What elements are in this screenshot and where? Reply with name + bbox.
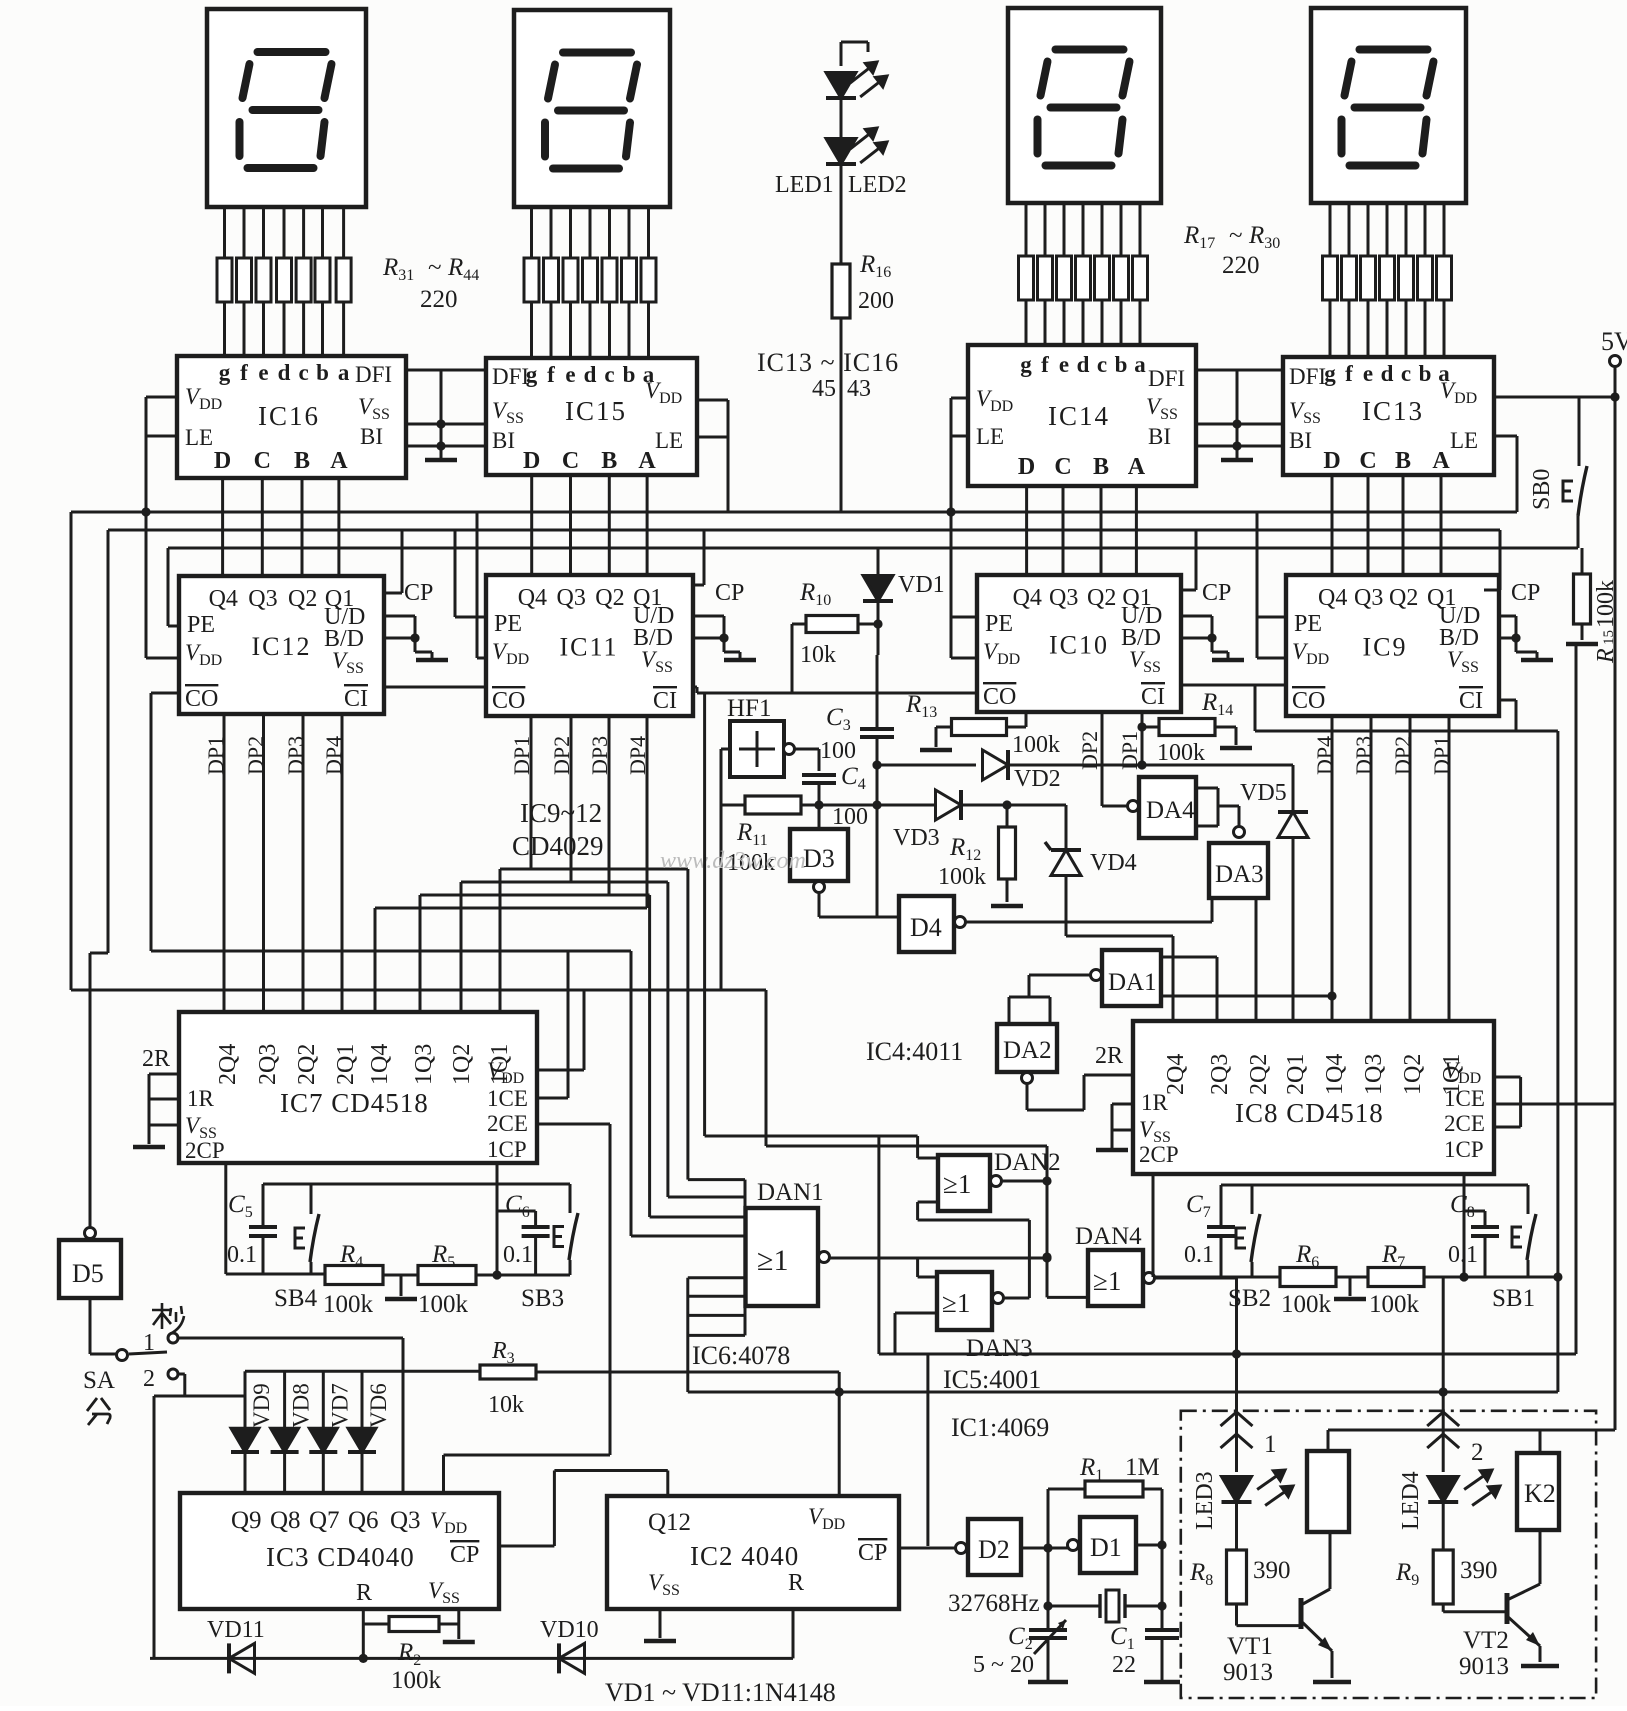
resistor R24-R30 #2 bbox=[1342, 256, 1357, 300]
resistor R24-R30 #3 bbox=[1361, 256, 1376, 300]
wire oscillator left column bbox=[1047, 1489, 1050, 1630]
svg-text:DAN3: DAN3 bbox=[966, 1335, 1033, 1362]
resistor R31-R37 #6 bbox=[315, 258, 330, 302]
wire IC2 CP to D2 bbox=[899, 1547, 956, 1550]
diode VD3 bbox=[936, 790, 962, 820]
svg-text:1Q3: 1Q3 bbox=[411, 1044, 437, 1085]
wire IC11 CP to bus B bbox=[693, 584, 704, 587]
svg-text:390: 390 bbox=[1253, 1557, 1291, 1584]
svg-text:CI: CI bbox=[1459, 688, 1483, 714]
wire to DAN3 input1 bbox=[1042, 1253, 1051, 1262]
svg-text:IC16: IC16 bbox=[258, 401, 320, 431]
svg-text:VD1 ~ VD11:1N4148: VD1 ~ VD11:1N4148 bbox=[605, 1678, 836, 1706]
svg-text:DP4: DP4 bbox=[321, 736, 346, 775]
svg-text:b: b bbox=[1115, 352, 1128, 377]
label seconds (Chinese) bbox=[152, 1303, 184, 1334]
crystal oscillator HF1 bbox=[730, 721, 784, 777]
svg-text:VD3: VD3 bbox=[893, 825, 940, 851]
svg-text:1: 1 bbox=[1264, 1431, 1277, 1458]
IC15 display latch/decoder bbox=[486, 358, 697, 475]
svg-text:DAN4: DAN4 bbox=[1075, 1223, 1142, 1250]
svg-text:100: 100 bbox=[820, 738, 856, 764]
svg-text:VD7: VD7 bbox=[327, 1383, 352, 1428]
wire display pin R17-R234 bbox=[1082, 203, 1085, 256]
svg-text:100k: 100k bbox=[1012, 732, 1060, 758]
resistor R38-R44 #6 bbox=[622, 258, 637, 302]
svg-text:IC9~12: IC9~12 bbox=[520, 798, 602, 828]
diode VD8 bbox=[283, 1371, 286, 1427]
wire IC7 1CE to y951 rail bbox=[537, 1097, 568, 1100]
NOR gate DAN2 bbox=[938, 1155, 990, 1211]
resistor R6 100k bbox=[1280, 1268, 1336, 1287]
wire resistor R17-R234 to driver IC bbox=[1082, 300, 1085, 345]
crystal bbox=[1048, 1605, 1100, 1608]
ground bbox=[724, 658, 756, 663]
wire display pin R24-R301 bbox=[1329, 203, 1332, 256]
diode VD9 bbox=[244, 1371, 247, 1427]
wire HF1 output bubble bbox=[784, 744, 795, 755]
svg-text:R: R bbox=[788, 1570, 804, 1596]
svg-text:CO: CO bbox=[185, 686, 218, 712]
svg-text:A: A bbox=[330, 448, 348, 474]
svg-text:1Q4: 1Q4 bbox=[1322, 1054, 1348, 1095]
svg-text:Q3: Q3 bbox=[1049, 585, 1078, 611]
wire HF1 left stub bbox=[721, 748, 730, 751]
wire R7-C8 node down to plug rail bbox=[1442, 1277, 1445, 1393]
svg-text:D: D bbox=[214, 448, 231, 474]
diode VD5 bbox=[1292, 765, 1295, 812]
svg-text:DP2: DP2 bbox=[243, 736, 268, 775]
wire IC7 2CP down bbox=[224, 1163, 227, 1274]
svg-text:PE: PE bbox=[1294, 611, 1322, 637]
wire ground drop bbox=[440, 370, 443, 460]
wire DAN1 output to latch node bbox=[829, 1257, 1047, 1260]
svg-text:Q3: Q3 bbox=[390, 1507, 421, 1534]
svg-text:LED2: LED2 bbox=[848, 172, 907, 198]
svg-text:IC2 4040: IC2 4040 bbox=[690, 1541, 799, 1571]
svg-text:IC7 CD4518: IC7 CD4518 bbox=[280, 1088, 429, 1118]
wire BI tie bbox=[1196, 445, 1283, 448]
svg-text:2CP: 2CP bbox=[185, 1138, 225, 1163]
capacitor C1 22 bbox=[1145, 1628, 1179, 1632]
ground bbox=[1521, 658, 1553, 663]
wire U/D B/D tie to ground bbox=[384, 615, 415, 618]
svg-text:DP2: DP2 bbox=[549, 736, 574, 775]
wire R9 to VT2 base bbox=[1442, 1604, 1445, 1612]
svg-text:100k: 100k bbox=[1281, 1291, 1332, 1318]
ground bbox=[416, 658, 448, 663]
resistor R5 100k bbox=[418, 1266, 476, 1285]
svg-text:100k: 100k bbox=[391, 1667, 442, 1694]
svg-text:1R: 1R bbox=[1141, 1090, 1169, 1115]
relay K1 bbox=[1307, 1451, 1349, 1532]
resistor R11 100k bbox=[745, 796, 801, 814]
svg-text:CP: CP bbox=[1202, 580, 1231, 606]
IC9 CD4029 counter bbox=[1286, 575, 1499, 716]
svg-text:DA2: DA2 bbox=[1003, 1037, 1052, 1064]
wire IC15 D-A to IC11 Q4-Q1 bbox=[530, 475, 533, 575]
svg-text:PE: PE bbox=[187, 612, 215, 638]
wire resistor R38-R443 to driver IC bbox=[569, 302, 572, 358]
diode VD6 bbox=[361, 1371, 364, 1427]
svg-text:DP1: DP1 bbox=[203, 736, 228, 775]
wire x610 rail down to IC3 VDD bbox=[609, 1124, 612, 1455]
resistor R3 10k bbox=[480, 1365, 536, 1379]
svg-text:f: f bbox=[1345, 361, 1353, 386]
wire IC13 D-A to IC9 Q4-Q1 bbox=[1331, 475, 1334, 575]
svg-text:~: ~ bbox=[1229, 222, 1243, 249]
svg-text:2Q2: 2Q2 bbox=[1246, 1054, 1272, 1095]
wire IC11 PE from bus B bbox=[454, 530, 457, 617]
capacitor C8 0.1 bbox=[1484, 1211, 1487, 1227]
wire display pin R17-R237 bbox=[1139, 203, 1142, 256]
diode VD1 bbox=[877, 548, 880, 574]
svg-text:Q4: Q4 bbox=[209, 586, 238, 612]
svg-text:VT1: VT1 bbox=[1227, 1633, 1273, 1660]
svg-text:D: D bbox=[523, 448, 540, 474]
wire IC8 1R/VSS ground bracket bbox=[1112, 1103, 1133, 1106]
svg-text:390: 390 bbox=[1460, 1557, 1498, 1584]
wire C3 down to D4 input node bbox=[876, 737, 879, 917]
svg-text:1CP: 1CP bbox=[1444, 1137, 1484, 1162]
wire R6-R7 ground bbox=[1349, 1277, 1352, 1296]
NAND gate DA2 bbox=[997, 1024, 1057, 1072]
resistor R17-R23 #4 bbox=[1076, 256, 1091, 300]
wire resistor R24-R305 to driver IC bbox=[1405, 300, 1408, 357]
svg-text:1Q2: 1Q2 bbox=[1400, 1054, 1426, 1095]
svg-text:CO: CO bbox=[492, 688, 525, 714]
wire R4-R5 junction with ground bbox=[383, 1274, 418, 1277]
svg-text:D2: D2 bbox=[978, 1535, 1010, 1564]
LED4 bbox=[1428, 1477, 1458, 1503]
wire DAN3 input2 to y1354 rail bbox=[895, 1312, 937, 1315]
svg-text:B: B bbox=[601, 448, 617, 474]
wire left rail x71 bbox=[70, 512, 73, 990]
wire x766 rail bbox=[765, 990, 768, 1146]
wire D3 output to D4 bbox=[814, 882, 825, 893]
svg-text:IC1:4069: IC1:4069 bbox=[951, 1413, 1049, 1442]
wire resistor R38-R442 to driver IC bbox=[550, 302, 553, 358]
inverter D1 bbox=[1068, 1540, 1079, 1551]
LED1 bbox=[826, 73, 856, 99]
wire IC12 CP to bus B bbox=[384, 592, 402, 595]
label minutes (Chinese) bbox=[87, 1398, 110, 1425]
svg-text:PE: PE bbox=[494, 611, 522, 637]
svg-text:Q2: Q2 bbox=[1087, 585, 1116, 611]
svg-text:D: D bbox=[1323, 448, 1340, 474]
svg-text:VD5: VD5 bbox=[1240, 780, 1287, 806]
svg-text:B: B bbox=[1395, 448, 1411, 474]
wire VD2 to VD5 column bbox=[1008, 764, 1293, 767]
svg-text:DFI: DFI bbox=[1289, 364, 1326, 389]
svg-text:1R: 1R bbox=[187, 1086, 215, 1111]
LED3 bbox=[1222, 1477, 1252, 1503]
wire display pin R24-R307 bbox=[1443, 203, 1446, 256]
svg-text:BI: BI bbox=[1148, 424, 1171, 449]
svg-text:IC12: IC12 bbox=[252, 632, 312, 661]
svg-text:c: c bbox=[604, 362, 614, 387]
svg-text:a: a bbox=[1134, 352, 1146, 377]
wire DAN2 output bbox=[1001, 1180, 1047, 1183]
wire bus line A (LE net, y511) bbox=[71, 511, 1517, 514]
svg-text:DAN1: DAN1 bbox=[757, 1179, 824, 1206]
resistor R17-R23 #2 bbox=[1038, 256, 1053, 300]
wire IC9 CI loop bbox=[1499, 699, 1516, 702]
diode VD2 bbox=[983, 750, 1009, 780]
resistor R31-R37 #4 bbox=[277, 258, 292, 302]
IC13 display latch/decoder bbox=[1283, 357, 1494, 475]
wire y1354 rail bbox=[879, 1353, 1576, 1356]
svg-text:LED4: LED4 bbox=[1398, 1471, 1424, 1530]
wire IC10 DP2 to DA4 input bbox=[1101, 712, 1104, 806]
wire bus into DAN2 area bbox=[705, 1135, 918, 1138]
svg-text:SB0: SB0 bbox=[1529, 469, 1555, 510]
svg-text:SB2: SB2 bbox=[1228, 1285, 1271, 1312]
svg-text:D1: D1 bbox=[1090, 1533, 1122, 1562]
wire resistor R31-R373 to driver IC bbox=[262, 302, 265, 356]
trimmer capacitor C2 5~20 bbox=[1029, 1628, 1067, 1632]
svg-text:VD1: VD1 bbox=[898, 572, 945, 598]
wire resistor R31-R372 to driver IC bbox=[243, 302, 246, 356]
svg-text:≥1: ≥1 bbox=[943, 1169, 971, 1199]
resistor R10 10k bbox=[806, 616, 858, 633]
wire IC9 PE/VDD from bus A bbox=[1256, 512, 1259, 658]
svg-text:45: 45 bbox=[812, 376, 836, 402]
IC7 CD4518 counter bbox=[179, 1012, 537, 1163]
svg-text:DP2: DP2 bbox=[1077, 731, 1102, 770]
resistor R7 100k bbox=[1368, 1268, 1424, 1287]
svg-text:B: B bbox=[294, 448, 310, 474]
7-segment display DS1 (hours tens) bbox=[1311, 8, 1466, 203]
wire resistor R24-R301 to driver IC bbox=[1329, 300, 1332, 357]
ground bbox=[991, 904, 1023, 909]
wire bottom reset rail bbox=[150, 1657, 793, 1660]
svg-text:a: a bbox=[338, 360, 350, 385]
wire IC11 DP4 to IC7 1Q4 bbox=[646, 716, 649, 908]
svg-text:VD10: VD10 bbox=[540, 1617, 599, 1643]
svg-text:VD6: VD6 bbox=[366, 1383, 391, 1428]
wire resistor R17-R233 to driver IC bbox=[1063, 300, 1066, 345]
resistor R4 100k bbox=[325, 1266, 383, 1285]
wire VD1 node down to C3 bbox=[877, 624, 880, 655]
ground bbox=[1334, 1297, 1366, 1302]
ground bbox=[1313, 1680, 1351, 1685]
wire display pin R24-R304 bbox=[1386, 203, 1389, 256]
wire resistor R38-R447 to driver IC bbox=[647, 302, 650, 358]
wire resistor R24-R304 to driver IC bbox=[1386, 300, 1389, 357]
wire DAN3 output bbox=[1003, 1297, 1029, 1300]
svg-text:220: 220 bbox=[420, 286, 458, 313]
svg-text:0.1: 0.1 bbox=[503, 1242, 533, 1268]
svg-text:Q8: Q8 bbox=[270, 1507, 301, 1534]
svg-text:1CE: 1CE bbox=[1444, 1086, 1485, 1111]
resistor R1 1M bbox=[1085, 1481, 1143, 1497]
svg-text:100k: 100k bbox=[418, 1291, 469, 1318]
wire resistor R24-R306 to driver IC bbox=[1424, 300, 1427, 357]
svg-text:VD4: VD4 bbox=[1090, 850, 1137, 876]
svg-text:1Q3: 1Q3 bbox=[1361, 1054, 1387, 1095]
svg-text:100k: 100k bbox=[323, 1291, 374, 1318]
wire LED2 to R16 bbox=[840, 164, 843, 264]
wire D5 to SA pole bbox=[89, 1298, 92, 1354]
7-segment display DS2 (hours units) bbox=[1008, 8, 1161, 203]
resistor R24-R30 #1 bbox=[1323, 256, 1338, 300]
svg-text:2Q4: 2Q4 bbox=[215, 1044, 241, 1085]
wire IC13 VDD to 5V rail bbox=[1494, 396, 1615, 399]
svg-text:15: 15 bbox=[1601, 630, 1617, 645]
svg-text:2CE: 2CE bbox=[1444, 1111, 1485, 1136]
wire display pin R24-R306 bbox=[1424, 203, 1427, 256]
zener diode VD4 bbox=[1065, 805, 1068, 850]
svg-text:1: 1 bbox=[143, 1330, 155, 1356]
wire IC3 R pin down bbox=[362, 1609, 365, 1658]
wire DAN1 input 1 bbox=[686, 869, 689, 1180]
svg-text:DP1: DP1 bbox=[1117, 731, 1142, 770]
wire DA2 output to IC8 2R bbox=[1022, 1073, 1033, 1084]
wire display pin R17-R232 bbox=[1044, 203, 1047, 256]
wire SB2 block top rail bbox=[1221, 1184, 1528, 1187]
resistor R12 100k bbox=[1006, 805, 1009, 827]
svg-text:100k: 100k bbox=[1157, 740, 1205, 766]
inverter D5 bbox=[85, 1228, 96, 1239]
wire IC11 DP1 to IC7 1Q1 bbox=[530, 716, 533, 869]
wire DAN1 input 2 bbox=[666, 882, 669, 1197]
svg-text:DA3: DA3 bbox=[1215, 861, 1264, 888]
resistor R17-R23 #5 bbox=[1095, 256, 1110, 300]
wire VD3 to R12/VD4 bbox=[961, 804, 1066, 807]
wire CI loop to SB1 rail bbox=[1556, 731, 1559, 1277]
wire R14 right to ground bbox=[1215, 726, 1236, 729]
svg-text:IC9: IC9 bbox=[1363, 633, 1408, 662]
wire x704 rail bbox=[703, 693, 706, 1136]
svg-text:Q3: Q3 bbox=[1354, 585, 1383, 611]
wire IC7 VDD to y990 rail bbox=[537, 1069, 584, 1072]
wire ground drop bbox=[1236, 370, 1239, 460]
wire DA1 input from DA2 bbox=[1029, 974, 1091, 977]
svg-text:LE: LE bbox=[1450, 428, 1478, 453]
svg-text:2Q1: 2Q1 bbox=[1283, 1054, 1309, 1095]
wire VD4 node to IC8 2Q4 bbox=[1066, 935, 1173, 938]
svg-text:Q9: Q9 bbox=[231, 1507, 262, 1534]
wire resistor R17-R237 to driver IC bbox=[1139, 300, 1142, 345]
ground bbox=[443, 1640, 475, 1645]
inverter D3 bbox=[790, 829, 848, 881]
wire display pin R17-R236 bbox=[1120, 203, 1123, 256]
wire display pin R31-R371 bbox=[223, 207, 226, 258]
wire contact 2 to VD9 anode bbox=[178, 1373, 185, 1376]
wire resistor R31-R376 to driver IC bbox=[321, 302, 324, 356]
wire IC10 DP1 to VD2 line bbox=[1141, 712, 1144, 765]
svg-text:IC6:4078: IC6:4078 bbox=[692, 1341, 790, 1370]
svg-text:SB3: SB3 bbox=[521, 1285, 564, 1312]
svg-text:9013: 9013 bbox=[1459, 1653, 1509, 1680]
svg-text:100k: 100k bbox=[1369, 1291, 1420, 1318]
wire IC2 VSS to ground bbox=[659, 1609, 662, 1638]
svg-text:DFI: DFI bbox=[1148, 366, 1185, 391]
transistor VT2 9013 bbox=[1505, 1593, 1510, 1624]
wire IC9 CP to bus B bbox=[1484, 589, 1500, 592]
wire DFI tie bbox=[1196, 369, 1283, 372]
wire y1354 rail to oscillator CP line bbox=[926, 1354, 929, 1546]
wire display pin R24-R302 bbox=[1348, 203, 1351, 256]
wire rail x146 IC16 supply to line A to IC12 VDD bbox=[145, 397, 148, 658]
svg-text:2R: 2R bbox=[142, 1046, 170, 1072]
resistor R17-R23 #3 bbox=[1057, 256, 1072, 300]
wire display pin R24-R303 bbox=[1367, 203, 1370, 256]
ground bbox=[1144, 1680, 1180, 1685]
IC12 CD4029 counter bbox=[179, 576, 384, 714]
resistor R31-R37 #1 bbox=[217, 258, 232, 302]
svg-text:IC14: IC14 bbox=[1048, 401, 1110, 431]
svg-text:CO: CO bbox=[1292, 688, 1325, 714]
wire IC16 D-A to IC12 Q4-Q1 bbox=[221, 478, 224, 576]
NOR gate DAN4 bbox=[1088, 1250, 1143, 1306]
svg-text:1M: 1M bbox=[1125, 1454, 1160, 1481]
wire resistor R31-R371 to driver IC bbox=[223, 302, 226, 356]
wire IC12 CO rail x151 down to y951 bbox=[151, 692, 179, 695]
SA contact 2 bbox=[168, 1369, 178, 1379]
svg-text:c: c bbox=[1097, 352, 1107, 377]
wire R8 to VT1 base bbox=[1235, 1604, 1238, 1626]
svg-text:HF1: HF1 bbox=[727, 695, 771, 722]
svg-text:100k: 100k bbox=[1593, 580, 1619, 628]
wire IC14 D-A to IC10 Q4-Q1 bbox=[1025, 486, 1028, 575]
capacitor C4 100 bbox=[818, 749, 821, 771]
wire resistor R31-R374 to driver IC bbox=[283, 302, 286, 356]
svg-text:A: A bbox=[1432, 448, 1450, 474]
resistor R8 390 bbox=[1235, 1502, 1238, 1550]
wire resistor R17-R235 to driver IC bbox=[1101, 300, 1104, 345]
svg-text:0.1: 0.1 bbox=[1184, 1242, 1214, 1268]
svg-text:2Q4: 2Q4 bbox=[1163, 1054, 1189, 1095]
wire display pin R24-R305 bbox=[1405, 203, 1408, 256]
resistor R38-R44 #4 bbox=[583, 258, 598, 302]
wire IC14 VDD/LE rail bbox=[951, 397, 968, 400]
wire display pin R31-R376 bbox=[321, 207, 324, 258]
svg-text:www.dz3w.com: www.dz3w.com bbox=[660, 848, 806, 874]
wire IC12 CI to IC11 CO bbox=[384, 686, 486, 689]
svg-text:IC8 CD4518: IC8 CD4518 bbox=[1235, 1098, 1384, 1128]
svg-text:2CP: 2CP bbox=[1139, 1142, 1179, 1167]
wire IC11 DP3 to IC7 1Q3 bbox=[608, 716, 611, 895]
svg-text:CI: CI bbox=[1141, 684, 1165, 710]
diode VD11 bbox=[229, 1643, 255, 1673]
resistor R38-R44 #1 bbox=[524, 258, 539, 302]
wire DAN1 input 3 bbox=[648, 895, 651, 1217]
svg-text:DP2: DP2 bbox=[1390, 736, 1415, 775]
wire display pin R31-R375 bbox=[302, 207, 305, 258]
svg-text:DFI: DFI bbox=[492, 364, 529, 389]
wire resistor R17-R231 to driver IC bbox=[1025, 300, 1028, 345]
svg-text:1Q2: 1Q2 bbox=[449, 1044, 475, 1085]
svg-text:5V: 5V bbox=[1601, 327, 1627, 356]
svg-text:g: g bbox=[219, 360, 231, 385]
wire IC7 1CP down bbox=[496, 1163, 499, 1274]
plug arrows 1 bbox=[1221, 1412, 1253, 1426]
svg-text:A: A bbox=[1128, 454, 1146, 480]
wire R3 right to IC2 VDD and y1392 rail bbox=[536, 1371, 839, 1374]
svg-text:IC11: IC11 bbox=[560, 633, 619, 662]
svg-text:g: g bbox=[1020, 352, 1032, 377]
svg-text:≥1: ≥1 bbox=[1093, 1266, 1121, 1296]
wire contact 1 to IC3 Q3 bbox=[178, 1337, 403, 1340]
wire DA1 top stub to IC8 2Q3 bbox=[1161, 956, 1217, 959]
svg-text:DP3: DP3 bbox=[283, 736, 308, 775]
wire oscillator right column bbox=[1161, 1489, 1164, 1630]
svg-text:200: 200 bbox=[858, 288, 894, 314]
svg-text:BI: BI bbox=[360, 424, 383, 449]
svg-text:BI: BI bbox=[1289, 428, 1312, 453]
